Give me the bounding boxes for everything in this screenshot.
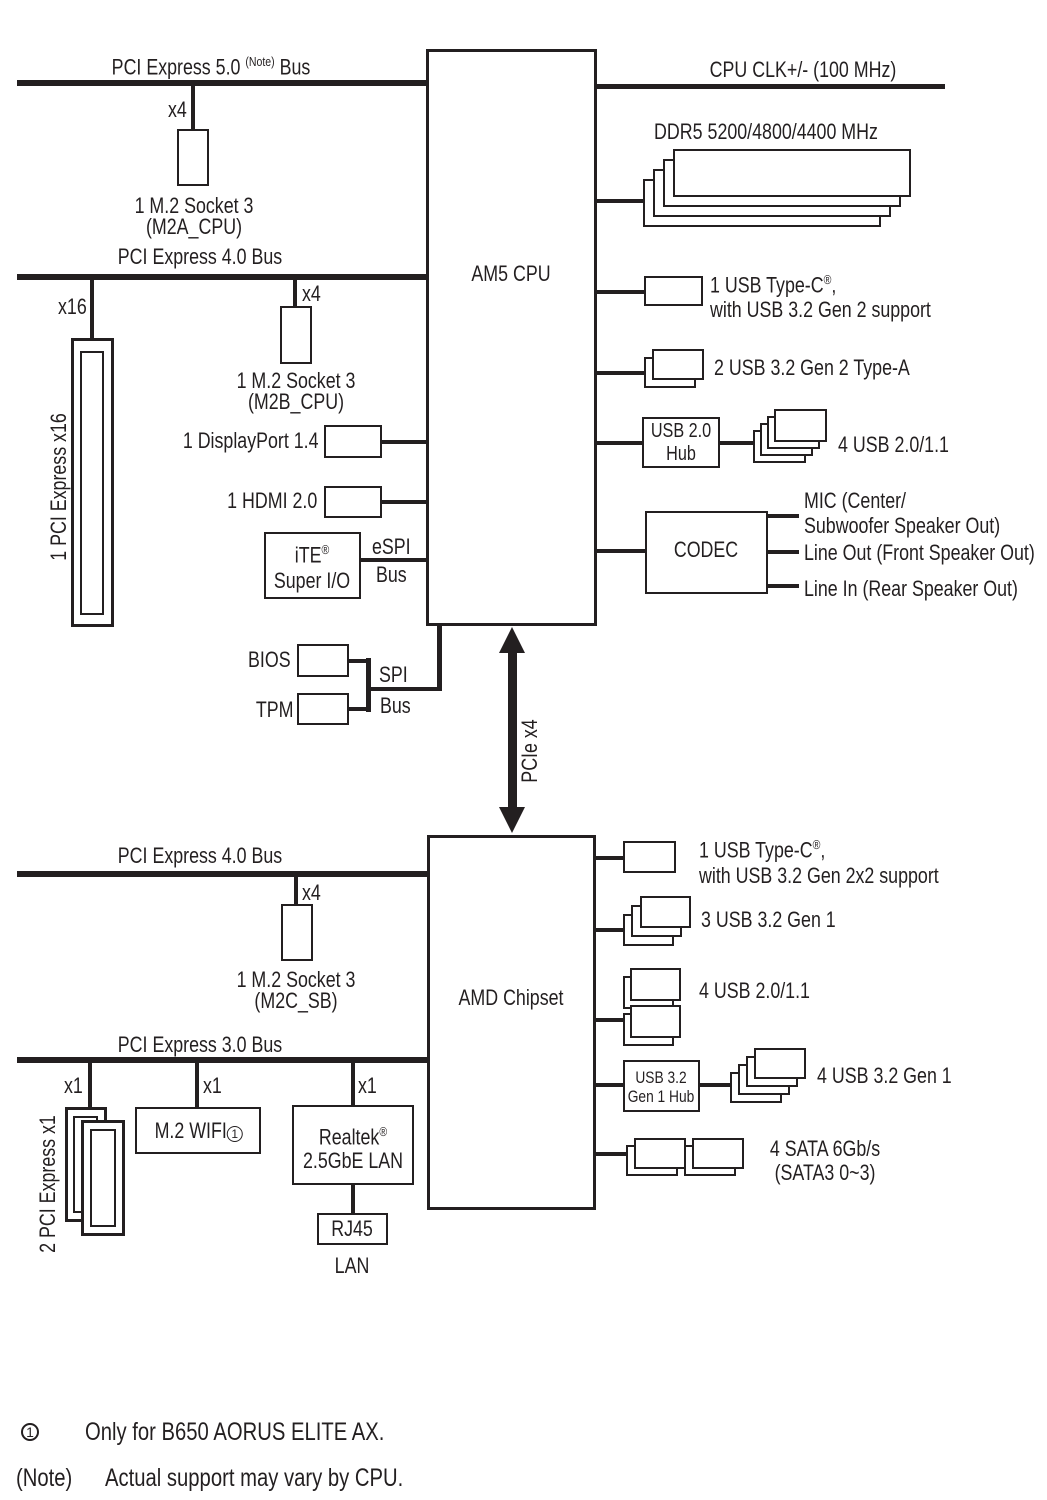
bus PCI Express 5.0 xyxy=(17,80,426,86)
bus CPU CLK xyxy=(597,84,945,89)
memory DDR5 stack rect 3 xyxy=(653,169,891,217)
wire CPU to USB 2.0 hub xyxy=(597,441,642,445)
port 3 USB 3.2 Gen1 rect 3 xyxy=(623,914,674,946)
slot PCI Express x1 A inner xyxy=(73,1116,98,1213)
wire x16 drop xyxy=(90,280,94,338)
label CPU CLK xyxy=(710,59,897,81)
port 4 USB 3.2 stack rect 3 xyxy=(738,1064,790,1095)
wire chipset to USB Type-C 2x2 xyxy=(596,856,623,860)
chip AM5 CPU xyxy=(426,49,597,626)
box RJ45 xyxy=(317,1213,388,1245)
label Line Out xyxy=(804,542,1035,564)
arrow PCIe x4 head up xyxy=(499,627,525,653)
label x1 a xyxy=(64,1075,83,1097)
label 1 M.2 Socket 3 (M2C_SB) xyxy=(237,969,356,1011)
wire SPI vertical from CPU xyxy=(437,626,442,691)
label 1 USB Type-C gen2 xyxy=(710,267,931,322)
port SATA right front xyxy=(692,1138,744,1169)
label x1 c xyxy=(358,1075,377,1097)
port USB Type-C 2x2 xyxy=(623,841,676,873)
label 3 USB 3.2 Gen 1 xyxy=(701,909,836,931)
label AMD Chipset xyxy=(459,987,564,1009)
note only for B650 xyxy=(85,1420,384,1444)
wire CPU to USB Type-A xyxy=(597,371,644,375)
wire chipset to hub xyxy=(596,1083,623,1087)
port USB 2.0 stack rect 1 xyxy=(774,409,827,442)
wire x4 to M2C xyxy=(294,877,298,904)
box iTE Super I/O xyxy=(264,532,361,599)
connector M2B xyxy=(280,306,312,364)
wire hub to 4 USB 3.2 stack xyxy=(700,1083,730,1087)
slot PCI Express x16 outer xyxy=(71,338,114,627)
port SATA left back xyxy=(626,1145,678,1176)
wire chipset to SATA xyxy=(596,1152,626,1156)
box HDMI xyxy=(324,486,382,518)
connector M2C xyxy=(281,904,313,961)
port 4 USB 2.0 pair1 back xyxy=(623,976,674,1009)
label BIOS xyxy=(248,649,291,671)
wire BIOS to bracket xyxy=(349,659,369,663)
port USB Type-C (CPU) xyxy=(644,276,703,306)
memory DDR5 stack rect 1 xyxy=(673,149,911,197)
memory DDR5 stack rect 2 xyxy=(663,159,901,207)
box TPM xyxy=(297,693,349,725)
wire CPU to DDR5 xyxy=(597,199,643,203)
port 4 USB 2.0 pair2 back xyxy=(623,1013,674,1046)
label 1 M.2 Socket 3 (M2B_CPU) xyxy=(237,370,356,412)
slot PCI Express x1 B inner xyxy=(90,1129,116,1227)
label 4 USB 2.0/1.1 chipset xyxy=(699,980,810,1002)
label SPI Bus xyxy=(380,695,411,717)
port USB Type-A back xyxy=(644,357,696,388)
note actual support xyxy=(105,1466,403,1490)
wire HDMI to CPU xyxy=(382,500,426,504)
note circled 1 xyxy=(21,1423,39,1441)
label iTE Super I/O xyxy=(274,537,350,594)
label x4 M2C xyxy=(302,882,321,904)
arrow PCIe x4 shaft xyxy=(508,649,517,809)
label 4 USB 3.2 Gen 1 xyxy=(817,1065,952,1087)
label x4 xyxy=(168,99,187,121)
connector M2A xyxy=(177,129,209,186)
port USB 2.0 stack rect 4 xyxy=(753,430,806,463)
label PCI Express 4.0 Bus xyxy=(118,246,282,268)
bus PCI Express 4.0 (CPU) xyxy=(17,274,426,280)
label LAN xyxy=(335,1255,370,1277)
bus PCI Express 4.0 (chipset) xyxy=(17,871,427,877)
slot PCI Express x16 inner xyxy=(80,351,104,615)
bus PCI Express 3.0 xyxy=(17,1057,427,1063)
label 1 HDMI 2.0 xyxy=(227,490,317,512)
label 2 PCI Express x1 xyxy=(35,1115,61,1253)
wire Line Out xyxy=(768,550,799,554)
port 3 USB 3.2 Gen1 rect 2 xyxy=(631,905,682,937)
label x4 M2B xyxy=(302,283,321,305)
wire eSPI xyxy=(361,558,426,562)
port USB 2.0 stack rect 2 xyxy=(767,416,820,449)
wire x1 drop b xyxy=(195,1063,199,1107)
label AM5 CPU xyxy=(471,263,550,285)
label Realtek 2.5GbE LAN xyxy=(303,1120,403,1173)
wire x1 drop a xyxy=(88,1063,92,1107)
label TPM xyxy=(255,699,293,721)
label 1 M.2 Socket 3 (M2A_CPU) xyxy=(135,195,254,237)
label SPI xyxy=(379,664,408,686)
box M.2 WIFI xyxy=(135,1107,261,1154)
label PCI Express 4.0 Bus chipset xyxy=(118,845,282,867)
wire chipset to 3 USB 3.2 Gen1 xyxy=(596,928,624,932)
label PCIe x4 xyxy=(517,719,543,782)
wire x1 drop c xyxy=(351,1063,355,1105)
label 2 USB 3.2 Gen 2 Type-A xyxy=(714,357,910,379)
label eSPI xyxy=(372,536,411,558)
port 4 USB 3.2 stack rect 2 xyxy=(746,1056,798,1087)
label 1 DisplayPort 1.4 xyxy=(183,430,319,452)
label 4 USB 2.0/1.1 xyxy=(838,434,949,456)
note (Note) xyxy=(16,1466,72,1490)
label USB 2.0 Hub xyxy=(651,420,711,466)
box DisplayPort xyxy=(324,425,382,458)
port SATA right back xyxy=(684,1145,736,1176)
label MIC xyxy=(804,488,1000,538)
codec box xyxy=(645,511,768,594)
port 4 USB 2.0 pair2 front xyxy=(630,1005,681,1038)
box BIOS xyxy=(297,644,349,677)
slot PCI Express x1 B outer xyxy=(81,1120,125,1236)
port 3 USB 3.2 Gen1 rect 1 xyxy=(640,896,691,928)
label 1 PCI Express x16 xyxy=(46,413,72,561)
label USB 3.2 Gen 1 Hub xyxy=(628,1068,695,1106)
label PCI Express 3.0 Bus xyxy=(118,1034,282,1056)
wire LAN to RJ45 xyxy=(351,1185,355,1213)
label x16 xyxy=(58,296,87,318)
label PCI Express 5.0 Bus xyxy=(112,51,311,78)
wire chipset to 4 USB 2.0 xyxy=(596,1018,623,1022)
label Line In xyxy=(804,578,1018,600)
wire CPU to CODEC xyxy=(597,549,645,553)
wire MIC xyxy=(768,514,799,518)
memory DDR5 label xyxy=(654,121,878,143)
wire CPU to USB Type-C xyxy=(597,290,644,294)
label 1 USB Type-C 2x2 xyxy=(699,832,939,889)
wire SPI bracket vertical xyxy=(366,658,371,712)
memory DDR5 stack rect 4 xyxy=(643,179,881,227)
wire DisplayPort to CPU xyxy=(382,440,426,444)
label M.2 WIFI xyxy=(155,1120,242,1142)
port 4 USB 3.2 stack rect 1 xyxy=(754,1048,806,1079)
hub USB 2.0 xyxy=(642,417,720,468)
wire SPI horizontal xyxy=(366,687,442,691)
label eSPI Bus xyxy=(376,564,407,586)
slot PCI Express x1 A outer xyxy=(65,1107,107,1222)
port SATA left front xyxy=(634,1138,686,1169)
label RJ45 xyxy=(331,1218,373,1240)
wire Line In xyxy=(768,584,799,588)
chip AMD Chipset xyxy=(427,835,596,1210)
port USB Type-A front xyxy=(652,349,704,380)
port 4 USB 3.2 stack rect 4 xyxy=(730,1072,782,1103)
box Realtek LAN xyxy=(292,1105,414,1185)
wire TPM to bracket xyxy=(349,707,369,711)
arrow PCIe x4 head down xyxy=(499,807,525,833)
wire hub to USB 2.0 stack xyxy=(720,441,753,445)
wire x4 to M2A xyxy=(191,86,195,129)
port USB 2.0 stack rect 3 xyxy=(760,423,813,456)
label 4 SATA xyxy=(770,1137,880,1185)
label x1 b xyxy=(203,1075,222,1097)
wire x4 to M2B xyxy=(293,280,297,306)
label CODEC xyxy=(674,539,738,561)
port 4 USB 2.0 pair1 front xyxy=(630,968,681,1001)
hub USB 3.2 Gen 1 xyxy=(623,1060,700,1112)
